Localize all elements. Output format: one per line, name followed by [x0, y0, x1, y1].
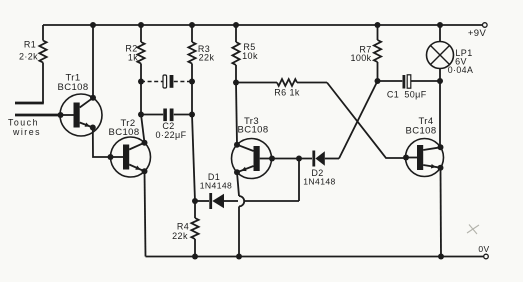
node R4/0V rail	[192, 254, 198, 260]
node R2/dashed-capacitor	[138, 79, 144, 85]
touch wire lower	[15, 114, 60, 117]
+9V rail	[43, 24, 483, 26]
svg-text:BC108: BC108	[405, 126, 436, 137]
wire R3 down to D1 node	[191, 64, 193, 115]
node R3/C2	[189, 112, 195, 118]
+9V terminal	[483, 23, 488, 28]
0V terminal	[484, 254, 489, 259]
resistor R7	[375, 22, 381, 28]
svg-text:wires: wires	[12, 127, 41, 137]
svg-text:+9V: +9V	[468, 28, 487, 39]
lamp LP1	[437, 22, 443, 28]
resistor R6	[236, 82, 277, 84]
svg-text:C1: C1	[387, 90, 399, 100]
svg-text:10k: 10k	[242, 51, 258, 61]
svg-text:0·22μF: 0·22μF	[155, 130, 186, 140]
transistor Tr2	[111, 137, 151, 177]
capacitor C2	[141, 114, 163, 116]
node R7/C1/crossover	[375, 78, 381, 84]
svg-text:22k: 22k	[172, 231, 188, 241]
resistor R3	[189, 22, 195, 28]
transistor Tr4	[406, 139, 444, 177]
node Tr4 emitter / 0V rail	[438, 254, 444, 260]
node R3/dashed-capacitor	[189, 79, 195, 85]
node Tr4 base	[403, 155, 409, 161]
resistor R5	[233, 22, 239, 28]
svg-text:0·04A: 0·04A	[448, 65, 473, 75]
resistor R4	[194, 201, 196, 218]
node D1/R4	[192, 198, 198, 204]
wire to Tr2 collector	[141, 115, 145, 143]
svg-text:1N4148: 1N4148	[303, 177, 336, 187]
wire Tr4 emitter to 0V rail	[440, 168, 443, 257]
capacitor C1	[378, 80, 403, 82]
wire D2 to R7 node (diagonal)	[339, 81, 378, 159]
resistor R1	[42, 25, 44, 41]
touch wire upper	[15, 102, 44, 105]
svg-text:1k: 1k	[128, 53, 138, 63]
node Tr3 emitter / 0V rail	[236, 254, 242, 260]
node C1 / lamp line	[437, 78, 443, 84]
svg-text:R6 1k: R6 1k	[274, 88, 300, 98]
svg-text:2·2k: 2·2k	[19, 52, 38, 62]
svg-text:BC108: BC108	[237, 125, 268, 136]
diode D2 1N4148	[312, 151, 315, 167]
svg-text:R4: R4	[177, 222, 189, 232]
wire C1 node to Tr4 collector	[439, 81, 441, 147]
svg-text:BC108: BC108	[57, 82, 88, 93]
node R2/C2	[138, 112, 144, 118]
dashed capacitor right lead	[174, 81, 192, 83]
svg-text:100k: 100k	[350, 53, 371, 63]
svg-text:22k: 22k	[199, 53, 215, 63]
transistor Tr1	[60, 94, 102, 136]
svg-text:BC108: BC108	[108, 127, 139, 138]
resistor R2	[138, 22, 144, 28]
svg-text:50μF: 50μF	[404, 90, 426, 100]
svg-text:1N4148: 1N4148	[200, 180, 233, 190]
svg-text:0V: 0V	[478, 244, 489, 254]
wire Tr3 emitter to 0V with hop over D1 wire	[237, 172, 239, 196]
wire Tr2 emitter to 0V rail	[145, 171, 146, 256]
wire R6 to Tr4 base (diagonal)	[327, 83, 406, 159]
wire R7 to C1 node	[377, 62, 379, 81]
node Tr1 base	[58, 112, 64, 118]
svg-text:R1: R1	[24, 40, 36, 50]
transistor Tr3	[232, 139, 272, 179]
0V rail	[146, 256, 485, 258]
dashed capacitor (optional) left lead	[141, 81, 163, 83]
node Tr3 base / D1 / D2	[296, 156, 302, 162]
wire R2 to capacitor nodes	[140, 64, 142, 115]
node Tr2 base	[108, 154, 114, 160]
wire D1 to D2-node riser	[244, 200, 299, 202]
wire R5 to Tr3 collector	[235, 65, 237, 83]
dashed capacitor plates	[163, 75, 167, 88]
wire Tr1 emitter to Tr2 base	[93, 128, 111, 158]
wire Tr3 base to D2	[272, 158, 312, 160]
wire +9V rail to Tr1 collector	[90, 22, 96, 28]
node R5/R6	[233, 80, 239, 86]
wire R1 to upper touch contact	[42, 63, 44, 104]
node Tr3 base exit	[269, 156, 275, 162]
diode D1 1N4148	[195, 200, 209, 202]
faint pencil mark	[467, 225, 479, 235]
